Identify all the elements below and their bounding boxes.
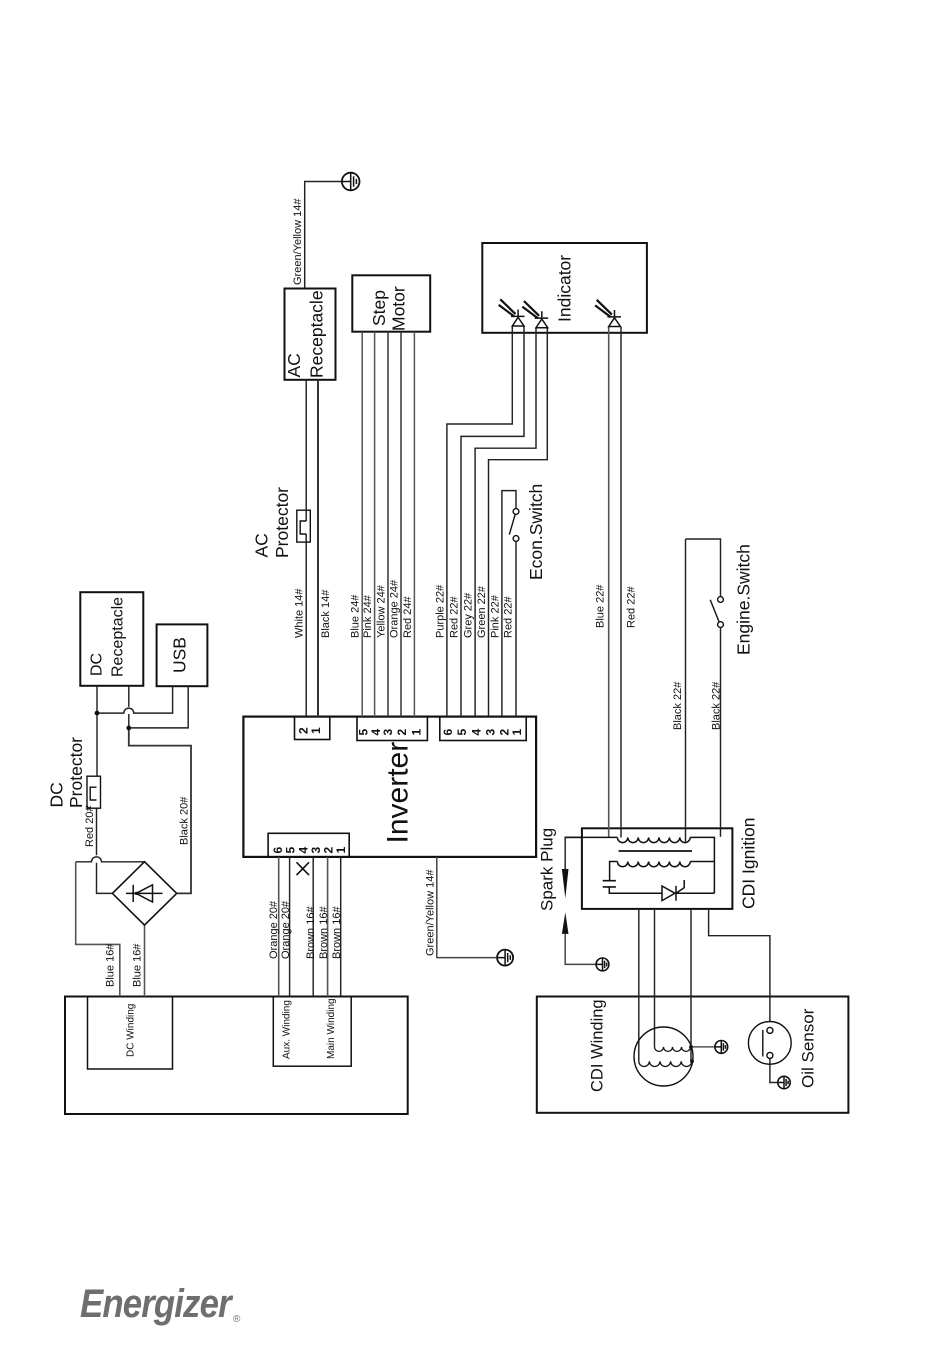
wire capacitor to SCR line bbox=[609, 887, 714, 893]
connector J3 (pins 6-1) bbox=[440, 717, 526, 741]
wire Yellow 24# step motor bbox=[387, 332, 389, 717]
wire Red 22# (LED3 cathode to CDI) bbox=[620, 327, 622, 838]
wire Black 14# (AC Receptacle to inverter pin 1) bbox=[317, 380, 319, 717]
CDI transformer core bbox=[619, 850, 693, 852]
wire Black 20# (node to rectifier +) bbox=[129, 728, 191, 894]
svg-text:Protector: Protector bbox=[66, 737, 86, 808]
wire engine switch top bar bbox=[686, 539, 721, 597]
wire DC Receptacle right lead bbox=[128, 686, 130, 728]
LED1 (indicator) bbox=[499, 299, 525, 326]
wire CDI winding to ground bbox=[691, 1046, 721, 1048]
svg-text:Red 20#: Red 20# bbox=[84, 805, 96, 847]
wire Red 24# step motor bbox=[413, 332, 415, 717]
Aux/Main Winding box bbox=[273, 997, 351, 1067]
svg-text:Econ.Switch: Econ.Switch bbox=[526, 484, 546, 580]
wire spark plug lead from CDI coil bbox=[565, 837, 582, 869]
svg-text:Purple 22#: Purple 22# bbox=[434, 584, 446, 638]
svg-text:Red 22#: Red 22# bbox=[502, 596, 514, 638]
wire Black 22# (engine switch to CDI) bbox=[720, 627, 722, 836]
svg-text:Oil Sensor: Oil Sensor bbox=[799, 1008, 818, 1088]
svg-text:Spark Plug: Spark Plug bbox=[538, 828, 557, 911]
ground G3 (spark plug earth) bbox=[596, 958, 609, 971]
svg-text:AC: AC bbox=[252, 533, 272, 557]
wire Pink 24# step motor bbox=[374, 332, 376, 717]
wire DC Receptacle left lead bbox=[96, 686, 98, 713]
svg-text:Red 24#: Red 24# bbox=[402, 596, 414, 638]
AC Receptacle box bbox=[285, 289, 336, 380]
wire Green 22# (LED2 cathode to inverter pin 3) bbox=[489, 328, 548, 717]
svg-text:CDI Winding: CDI Winding bbox=[589, 999, 607, 1092]
svg-text:Blue 16#: Blue 16# bbox=[132, 943, 144, 987]
wire CDI to oil sensor bbox=[709, 909, 770, 1022]
wire Orange 20# (aux winding to pin 6) bbox=[278, 857, 280, 997]
DC Winding box bbox=[88, 997, 173, 1070]
svg-text:Motor: Motor bbox=[389, 286, 409, 331]
junction node D (coil B right) bbox=[690, 1059, 694, 1063]
svg-text:1: 1 bbox=[309, 727, 323, 734]
switch S2 Engine.Switch bbox=[710, 597, 723, 628]
spark plug gap arrows bbox=[562, 869, 569, 934]
switch S1 Econ.Switch bbox=[509, 509, 519, 542]
oil sensor body bbox=[748, 1022, 791, 1065]
wire Blue 16# (rectifier bottom to DC winding) bbox=[144, 925, 146, 996]
DC Receptacle box bbox=[80, 592, 143, 686]
svg-text:Black 20#: Black 20# bbox=[179, 796, 191, 845]
svg-text:Receptacle: Receptacle bbox=[110, 597, 127, 677]
svg-text:Aux. Winding: Aux. Winding bbox=[282, 1000, 293, 1059]
CDI ignition transformer secondary coil bbox=[617, 862, 714, 867]
wire White 14# (AC Receptacle to inverter pin 2, broken at AC protector) bbox=[305, 380, 307, 717]
CDI winding rotor circle bbox=[634, 1027, 693, 1086]
svg-text:Orange 20#: Orange 20# bbox=[268, 900, 280, 959]
CDI Ignition box bbox=[582, 828, 733, 909]
wire rectifier AC input horizontal (with hop over red wire) bbox=[76, 857, 145, 862]
svg-text:6: 6 bbox=[441, 729, 455, 736]
wire ground to AC Receptacle (Green/Yellow 14#) bbox=[305, 182, 351, 289]
ground G5 (oil sensor earth) bbox=[778, 1076, 790, 1088]
svg-text:®: ® bbox=[233, 1314, 241, 1325]
svg-text:1: 1 bbox=[334, 847, 348, 854]
wire CDI winding coil B lead bbox=[638, 909, 640, 1061]
wire Brown 16# (pin 1) bbox=[340, 857, 342, 997]
svg-text:Inverter: Inverter bbox=[382, 742, 415, 844]
wire Black 22# (engine switch left leg to CDI) bbox=[685, 539, 687, 843]
svg-text:Brown 16#: Brown 16# bbox=[305, 906, 317, 959]
svg-text:3: 3 bbox=[483, 729, 497, 736]
wire spark plug to ground bbox=[565, 934, 602, 965]
svg-text:Green 22#: Green 22# bbox=[476, 585, 488, 638]
connector J2 (pins 5-1) bbox=[357, 717, 427, 741]
svg-text:Orange 24#: Orange 24# bbox=[389, 579, 401, 638]
svg-text:Receptacle: Receptacle bbox=[307, 290, 327, 378]
generator stator box (DC winding side) bbox=[65, 997, 408, 1115]
svg-text:Green/Yellow 14#: Green/Yellow 14# bbox=[424, 869, 436, 956]
junction node A (DC receptacle left) bbox=[95, 711, 100, 716]
wire Red 22# (Econ switch to inverter pin 1) bbox=[515, 541, 517, 716]
svg-text:Pink 22#: Pink 22# bbox=[489, 594, 501, 638]
wire Green/Yellow 14# (inverter to ground) bbox=[437, 857, 505, 958]
connector J1 (pins 2 1) bbox=[295, 717, 330, 740]
DC protector F2 bbox=[87, 776, 101, 808]
svg-text:Red 22#: Red 22# bbox=[449, 596, 461, 638]
svg-text:4: 4 bbox=[469, 729, 483, 736]
svg-text:5: 5 bbox=[455, 729, 469, 736]
LED3 (indicator) bbox=[595, 300, 621, 327]
junction node C (coil A right) bbox=[689, 1045, 693, 1049]
bridge rectifier D1 bbox=[112, 862, 176, 925]
svg-text:USB: USB bbox=[170, 637, 190, 673]
svg-text:Red 22#: Red 22# bbox=[626, 586, 638, 628]
junction node B (DC receptacle right) bbox=[126, 726, 131, 731]
svg-text:DC: DC bbox=[89, 653, 106, 676]
svg-text:Indicator: Indicator bbox=[555, 255, 575, 322]
svg-text:Black 22#: Black 22# bbox=[711, 681, 723, 730]
wire Brown 16# (pin 2) bbox=[327, 857, 329, 997]
LED2 (indicator) bbox=[522, 301, 548, 328]
svg-text:Main Winding: Main Winding bbox=[326, 998, 337, 1059]
wire CDI winding right lead bbox=[690, 909, 692, 1061]
wire Orange 20# (aux winding to pin 5) bbox=[289, 857, 291, 997]
svg-text:Black 22#: Black 22# bbox=[672, 681, 684, 730]
wire Grey 22# (LED2 anode to inverter pin 4) bbox=[475, 328, 536, 717]
wire Red 22# (LED1 cathode to inverter pin 5) bbox=[461, 326, 524, 717]
svg-text:Protector: Protector bbox=[272, 487, 292, 558]
svg-text:DC Winding: DC Winding bbox=[126, 1004, 137, 1057]
svg-text:Energizer: Energizer bbox=[80, 1281, 234, 1326]
ground G1 (AC receptacle earth) bbox=[342, 173, 360, 191]
svg-text:Green/Yellow 14#: Green/Yellow 14# bbox=[292, 198, 304, 285]
CDI ignition transformer primary coil bbox=[565, 837, 714, 893]
wire Purple 22# (LED1 anode to inverter pin 6) bbox=[447, 326, 512, 717]
CDI winding coil A bbox=[655, 1047, 691, 1052]
svg-text:White 14#: White 14# bbox=[294, 588, 306, 638]
CDI winding coil B bbox=[639, 1061, 692, 1066]
svg-text:Black 14#: Black 14# bbox=[320, 589, 332, 638]
Inverter U1 box bbox=[243, 717, 536, 857]
wire Blue 22# (LED3 anode to CDI) bbox=[608, 327, 610, 838]
ground G2 (inverter green/yellow earth) bbox=[497, 950, 513, 966]
wire Pink 22# (Econ switch to inverter pin 2) bbox=[502, 491, 516, 717]
engine box (CDI winding / oil sensor) bbox=[537, 997, 849, 1113]
svg-text:Step: Step bbox=[369, 290, 389, 326]
wire coil to capacitor bbox=[610, 862, 618, 881]
svg-text:DC: DC bbox=[47, 782, 67, 807]
svg-text:Engine.Switch: Engine.Switch bbox=[734, 544, 754, 655]
USB box bbox=[157, 624, 208, 686]
connector J4 (pins 6-1 bottom) bbox=[268, 833, 349, 857]
svg-text:1: 1 bbox=[409, 729, 423, 736]
wire Brown 16# (pin 3) bbox=[312, 857, 314, 997]
svg-text:2: 2 bbox=[395, 729, 409, 736]
wire Orange 24# step motor bbox=[400, 332, 402, 717]
AC protector F1 bbox=[297, 510, 311, 542]
Step Motor box bbox=[352, 275, 430, 331]
capacitor C1 bbox=[603, 881, 616, 887]
ground G4 (CDI winding earth) bbox=[715, 1041, 728, 1054]
wire oil sensor to ground bbox=[770, 1058, 784, 1082]
svg-text:Brown 16#: Brown 16# bbox=[318, 906, 330, 959]
svg-text:Orange 20#: Orange 20# bbox=[280, 900, 292, 959]
wire node to USB left (with hop) bbox=[97, 686, 173, 713]
svg-text:Grey 22#: Grey 22# bbox=[463, 592, 475, 638]
svg-text:Blue 16#: Blue 16# bbox=[105, 943, 117, 987]
svg-text:3: 3 bbox=[381, 729, 395, 736]
X mark (unused pin 4) bbox=[297, 862, 310, 875]
svg-text:Blue 24#: Blue 24# bbox=[350, 594, 362, 638]
wire Blue 16# (left, to DC winding) bbox=[76, 862, 120, 997]
svg-text:1: 1 bbox=[510, 729, 524, 736]
wire Blue 24# step motor bbox=[361, 332, 363, 717]
svg-text:Pink 24#: Pink 24# bbox=[362, 594, 374, 638]
wire CDI winding coil A lead bbox=[654, 909, 656, 1047]
svg-text:AC: AC bbox=[284, 353, 304, 377]
svg-text:CDI Ignition: CDI Ignition bbox=[739, 818, 759, 909]
wire Red 20# (node through DC protector to rectifier) bbox=[97, 713, 113, 893]
Indicator box bbox=[482, 243, 647, 333]
svg-text:Yellow 24#: Yellow 24# bbox=[376, 584, 388, 638]
wire node to USB right bbox=[129, 686, 188, 728]
thyristor Q1 (SCR) bbox=[662, 880, 684, 901]
svg-text:Brown 16#: Brown 16# bbox=[331, 906, 343, 959]
svg-text:Blue 22#: Blue 22# bbox=[595, 584, 607, 628]
